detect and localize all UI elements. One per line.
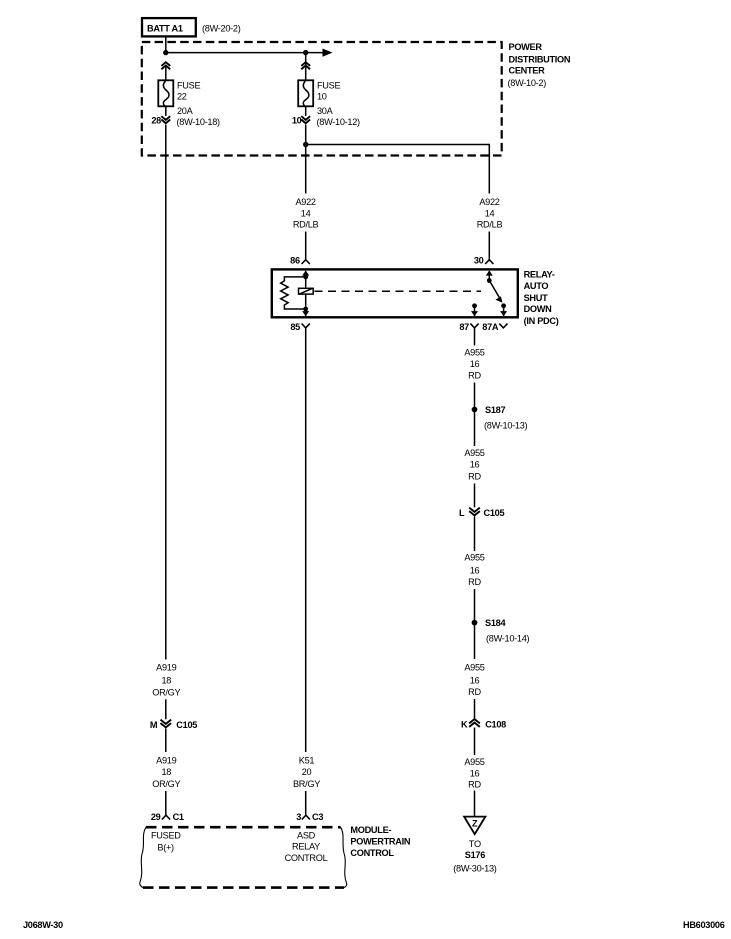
svg-text:RD/LB: RD/LB — [293, 220, 319, 230]
svg-text:RD: RD — [468, 471, 481, 481]
svg-text:AUTO: AUTO — [524, 281, 549, 291]
wire fuse 22 to pin 28 — [165, 106, 167, 116]
svg-text:(8W-10-14): (8W-10-14) — [486, 634, 530, 644]
pin 10 chevrons — [292, 115, 310, 125]
svg-text:C108: C108 — [485, 720, 506, 730]
svg-text:RELAY: RELAY — [292, 842, 320, 852]
svg-text:C3: C3 — [312, 812, 323, 822]
svg-text:A919: A919 — [156, 756, 176, 766]
wire branch to relay pin 30 — [306, 145, 490, 194]
wire bus with arrow — [166, 49, 333, 57]
wire seg to pin 29 — [165, 791, 167, 815]
wire label A955 16 RD set5 — [464, 757, 484, 789]
svg-text:S187: S187 — [485, 405, 505, 415]
svg-text:(8W-30-13): (8W-30-13) — [453, 864, 497, 874]
wire seg C108 to set5 — [474, 728, 476, 756]
node junction dot bus/fuse22 — [163, 50, 168, 55]
svg-text:POWERTRAIN: POWERTRAIN — [350, 837, 410, 847]
svg-text:28: 28 — [151, 115, 161, 125]
svg-text:OR/GY: OR/GY — [152, 779, 180, 789]
svg-text:3: 3 — [296, 812, 301, 822]
wire label A922 14 RD/LB left — [293, 197, 319, 230]
pin 87 — [459, 322, 478, 332]
node BATT A1 box — [142, 18, 196, 36]
svg-text:A919: A919 — [156, 663, 176, 673]
svg-text:HB603006: HB603006 — [683, 920, 725, 930]
pin 29 connector C1 — [151, 812, 184, 822]
wire A922 left to relay — [305, 232, 307, 260]
svg-text:A955: A955 — [464, 757, 484, 767]
relay pin 87 stub — [471, 303, 478, 316]
pin 85 — [290, 322, 309, 332]
svg-text:(8W-10-12): (8W-10-12) — [317, 117, 361, 127]
node coil top dot — [303, 275, 308, 280]
svg-text:14: 14 — [301, 208, 311, 218]
svg-text:S176: S176 — [465, 850, 485, 860]
splice S184 — [472, 618, 530, 644]
pin 3 connector C3 — [296, 812, 323, 822]
svg-text:OR/GY: OR/GY — [152, 687, 180, 697]
svg-text:(8W-20-2): (8W-20-2) — [202, 24, 241, 34]
svg-text:29: 29 — [151, 812, 161, 822]
svg-text:16: 16 — [470, 676, 480, 686]
svg-text:(8W-10-18): (8W-10-18) — [177, 117, 221, 127]
svg-text:20: 20 — [302, 767, 312, 777]
wire label A955 16 RD set4 — [464, 663, 484, 697]
svg-text:30A: 30A — [317, 106, 334, 116]
wire label A919 18 OR/GY set2 — [152, 756, 180, 790]
svg-text:RD/LB: RD/LB — [477, 220, 503, 230]
ground symbol Z to S176 — [453, 817, 497, 874]
connector C105 pin L — [459, 508, 504, 518]
svg-text:85: 85 — [290, 322, 300, 332]
svg-text:A922: A922 — [295, 197, 315, 207]
svg-text:87: 87 — [459, 322, 469, 332]
svg-text:10: 10 — [292, 115, 302, 125]
svg-text:FUSE: FUSE — [317, 81, 340, 91]
connector C105 pin M — [150, 720, 197, 730]
wire seg to C108 — [474, 699, 476, 719]
svg-text:J068W-30: J068W-30 — [23, 920, 63, 930]
wire seg C105 to set3 — [474, 517, 476, 552]
svg-text:RD: RD — [468, 577, 481, 587]
svg-text:CENTER: CENTER — [509, 66, 546, 76]
fuse F10 — [298, 80, 360, 127]
relay control dashed line — [315, 290, 482, 292]
svg-text:(8W-10-13): (8W-10-13) — [484, 420, 528, 430]
relay coil branch wire pin86 to pin85 — [302, 270, 309, 316]
svg-text:18: 18 — [161, 767, 171, 777]
svg-text:RD: RD — [468, 779, 481, 789]
svg-text:RD: RD — [468, 371, 481, 381]
svg-text:TO: TO — [469, 839, 481, 849]
node FUSED B(+) — [151, 831, 181, 853]
battery feed G1: BATT A1 — [142, 18, 241, 36]
connector chevrons above fuse 22 — [162, 62, 169, 68]
wire label A955 16 RD set1 — [464, 348, 484, 381]
svg-text:BR/GY: BR/GY — [293, 779, 320, 789]
svg-text:RELAY-: RELAY- — [524, 270, 555, 280]
svg-text:ASD: ASD — [297, 831, 316, 841]
svg-text:(8W-10-2): (8W-10-2) — [508, 78, 547, 88]
svg-text:C1: C1 — [173, 812, 184, 822]
wire seg to ground symbol — [474, 791, 476, 817]
svg-text:B(+): B(+) — [157, 842, 174, 852]
svg-text:20A: 20A — [177, 106, 194, 116]
wire fuse 10 output — [305, 125, 307, 194]
wire A922 right to relay — [488, 232, 490, 260]
wire label K51 20 BR/GY — [293, 756, 320, 790]
svg-text:22: 22 — [177, 92, 187, 102]
svg-text:(IN PDC): (IN PDC) — [524, 316, 559, 326]
wire label A955 16 RD set2 — [464, 448, 484, 481]
svg-text:C105: C105 — [176, 720, 197, 730]
wire bus to fuse 10 — [305, 53, 307, 81]
svg-text:S184: S184 — [485, 618, 506, 628]
wire relay pin87 down seg1 — [474, 328, 476, 346]
svg-text:87A: 87A — [482, 322, 499, 332]
svg-text:16: 16 — [470, 460, 480, 470]
svg-text:DISTRIBUTION: DISTRIBUTION — [509, 54, 571, 64]
fuse F22 — [158, 80, 220, 127]
svg-text:L: L — [459, 508, 465, 518]
svg-text:10: 10 — [317, 92, 327, 102]
module box: MODULE-POWERTRAIN CONTROL (torn dashed) — [140, 825, 411, 888]
svg-text:14: 14 — [485, 208, 495, 218]
svg-text:A955: A955 — [464, 448, 484, 458]
svg-text:A955: A955 — [464, 663, 484, 673]
wire seg to S184 — [474, 589, 476, 659]
power distribution center dashed enclosure — [142, 42, 571, 156]
svg-text:A955: A955 — [464, 348, 484, 358]
svg-text:30: 30 — [474, 256, 484, 266]
svg-text:FUSED: FUSED — [151, 831, 181, 841]
svg-text:A955: A955 — [464, 553, 484, 563]
svg-text:16: 16 — [470, 359, 480, 369]
svg-text:POWER: POWER — [509, 42, 543, 52]
wire seg to C105 left — [165, 699, 167, 719]
relay switch pin30 to pin 87A — [486, 270, 507, 316]
pin 30 — [474, 256, 494, 266]
svg-text:SHUT: SHUT — [524, 293, 548, 303]
svg-text:C105: C105 — [484, 508, 505, 518]
svg-text:18: 18 — [161, 675, 171, 685]
wire label A955 16 RD set3 — [464, 553, 484, 587]
svg-text:M: M — [150, 720, 158, 730]
svg-text:16: 16 — [470, 768, 480, 778]
pin 86 — [290, 256, 310, 266]
svg-text:A922: A922 — [479, 197, 499, 207]
wire seg to C105 — [474, 484, 476, 508]
node junction dot bus/fuse10 — [303, 50, 308, 55]
wire seg to S187 — [474, 383, 476, 447]
pin 87A — [482, 322, 507, 332]
wire fuse 10 to pin 10 — [305, 106, 307, 116]
wire bus to fuse 22 — [165, 67, 167, 81]
wire relay pin85 down — [305, 328, 307, 752]
svg-text:K51: K51 — [299, 756, 315, 766]
splice S187 — [472, 405, 528, 430]
svg-text:CONTROL: CONTROL — [350, 848, 394, 858]
wire seg to pin 3 — [305, 791, 307, 815]
svg-text:BATT A1: BATT A1 — [147, 24, 183, 34]
wire seg C105 to A919 set2 — [165, 729, 167, 752]
node coil bottom dot — [303, 307, 308, 312]
svg-text:FUSE: FUSE — [177, 81, 200, 91]
svg-text:RD: RD — [468, 687, 481, 697]
node ASD RELAY CONTROL — [285, 831, 328, 863]
svg-text:K: K — [461, 720, 468, 730]
svg-text:CONTROL: CONTROL — [285, 853, 328, 863]
node junction dot fuse10 branch — [303, 142, 308, 147]
wire label A922 14 RD/LB right — [477, 197, 503, 230]
relay coil — [299, 288, 314, 294]
connector chevrons above fuse 10 — [302, 62, 309, 68]
svg-text:MODULE-: MODULE- — [350, 825, 391, 835]
pin 28 chevrons — [151, 115, 169, 125]
svg-text:86: 86 — [290, 256, 300, 266]
wire BATT A1 to bus — [165, 36, 167, 52]
connector C108 pin K — [461, 719, 506, 729]
svg-text:16: 16 — [470, 566, 480, 576]
wire label A919 18 OR/GY set1 — [152, 663, 180, 698]
wire A919 fuse 22 down-leg — [165, 125, 167, 660]
svg-text:DOWN: DOWN — [524, 304, 553, 314]
relay K1 box: RELAY-AUTO SHUT DOWN — [272, 269, 559, 326]
resistor R (relay suppression) — [281, 277, 306, 309]
svg-text:Z: Z — [472, 818, 478, 828]
